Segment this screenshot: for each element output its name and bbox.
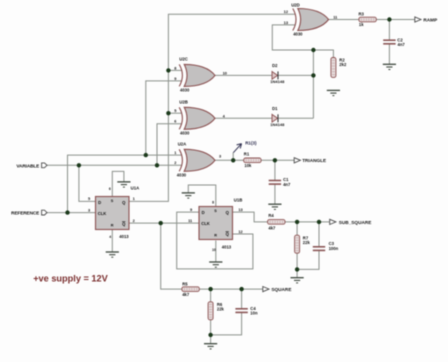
svg-text:1N4148: 1N4148 [270,122,285,127]
svg-text:9: 9 [174,76,177,81]
svg-text:4: 4 [109,235,111,239]
svg-text:12: 12 [284,9,289,14]
svg-text:11: 11 [188,218,193,223]
svg-text:12: 12 [238,229,243,234]
svg-text:CLK: CLK [98,211,107,216]
svg-text:4013: 4013 [119,234,129,239]
svg-text:R5: R5 [182,281,188,286]
svg-text:D: D [98,200,101,205]
svg-text:10n: 10n [250,311,258,316]
svg-text:D2: D2 [272,63,278,68]
svg-text:2: 2 [133,218,136,223]
svg-text:RAMP: RAMP [423,18,437,23]
svg-text:1: 1 [133,196,136,201]
svg-text:+ve supply = 12V: +ve supply = 12V [33,273,108,283]
svg-text:1k: 1k [359,22,364,27]
svg-text:3: 3 [219,153,222,158]
svg-text:R1: R1 [244,152,250,157]
svg-text:8: 8 [212,201,214,205]
svg-text:U2A: U2A [178,142,187,147]
svg-text:1: 1 [174,150,177,155]
svg-text:4013: 4013 [222,245,232,250]
svg-text:D1: D1 [272,106,278,111]
svg-text:D: D [202,210,205,215]
svg-text:4030: 4030 [180,130,190,135]
svg-text:8: 8 [174,65,177,70]
svg-text:1N4148: 1N4148 [270,79,285,84]
svg-text:5: 5 [174,108,177,113]
svg-text:U2B: U2B [179,100,188,105]
svg-text:SQUARE: SQUARE [271,287,291,292]
svg-text:10k: 10k [244,163,252,168]
svg-text:22k: 22k [217,307,225,312]
svg-text:22k: 22k [303,240,311,245]
svg-text:U2C: U2C [179,57,188,62]
svg-text:U1B: U1B [234,197,243,202]
svg-text:6: 6 [109,187,111,191]
svg-text:10: 10 [223,70,227,75]
svg-text:4n7: 4n7 [283,182,291,187]
svg-text:4: 4 [223,113,226,118]
svg-text:4k7: 4k7 [182,292,190,297]
svg-text:U2D: U2D [291,3,300,8]
svg-text:CLK: CLK [201,221,210,226]
svg-text:R: R [111,224,114,228]
svg-text:4030: 4030 [177,172,187,177]
svg-text:13: 13 [284,20,289,25]
svg-text:REFERENCE: REFERENCE [11,211,39,216]
svg-text:R: R [214,234,217,238]
svg-text:TRIANGLE: TRIANGLE [302,158,326,163]
svg-text:5: 5 [88,196,91,201]
svg-text:13: 13 [238,207,243,212]
svg-text:9: 9 [190,207,193,212]
svg-text:2k2: 2k2 [339,62,347,67]
svg-text:6: 6 [174,119,177,124]
svg-text:R4: R4 [268,213,274,218]
svg-text:11: 11 [333,14,338,19]
svg-text:R3: R3 [359,12,365,17]
svg-text:3: 3 [88,207,91,212]
svg-text:R1(3): R1(3) [245,141,257,146]
svg-text:4k7: 4k7 [268,226,276,231]
svg-text:2: 2 [174,160,177,165]
svg-text:4030: 4030 [180,87,190,92]
svg-text:4030: 4030 [293,31,303,36]
svg-text:VARIABLE: VARIABLE [16,163,39,168]
svg-text:4n7: 4n7 [398,42,406,47]
svg-text:100n: 100n [329,246,339,251]
svg-text:U1A: U1A [131,185,140,190]
svg-text:SUB_SQUARE: SUB_SQUARE [339,220,372,225]
svg-text:10: 10 [212,248,216,252]
